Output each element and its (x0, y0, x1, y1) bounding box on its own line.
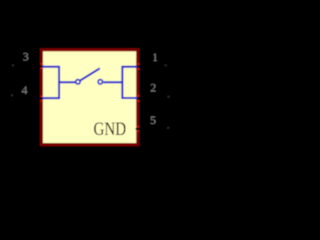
switch S1 symbol body (42, 50, 138, 145)
pin 4 endpoint marker dots (41, 95, 43, 101)
wire throw contact to right bracket (103, 81, 122, 83)
pin 5 endpoint marker dots (137, 126, 139, 132)
pin 1 line (136, 66, 167, 68)
pin 3 far-end dot (12, 64, 14, 66)
pin 5 far-end dot (167, 127, 169, 129)
svg-text:4: 4 (22, 83, 28, 97)
switch throw contact circle (98, 80, 102, 84)
pin 4 line (13, 97, 43, 99)
pin 5 line (136, 128, 167, 130)
pin 2 endpoint marker dots (137, 95, 139, 102)
pin 3 endpoint marker dots (41, 63, 43, 69)
pin 3 line (13, 65, 43, 67)
pin 1 endpoint marker dots (138, 63, 140, 70)
left contact bracket joining pins 3 and 4 (42, 67, 59, 98)
switch blade (open) (80, 68, 100, 80)
switch pole contact circle (76, 80, 80, 84)
svg-text:3: 3 (23, 49, 29, 63)
svg-text:GND: GND (94, 119, 127, 140)
svg-text:1: 1 (152, 50, 158, 64)
pin 2 far-end dot (168, 96, 170, 98)
svg-text:2: 2 (150, 80, 156, 94)
svg-text:5: 5 (150, 113, 156, 127)
pin 2 line (136, 97, 167, 99)
pin 1 far-end dot (165, 64, 167, 66)
pin 4 far-end dot (11, 94, 13, 96)
right contact bracket joining pins 1 and 2 (122, 67, 137, 98)
wire left bracket to pole contact (59, 81, 75, 83)
